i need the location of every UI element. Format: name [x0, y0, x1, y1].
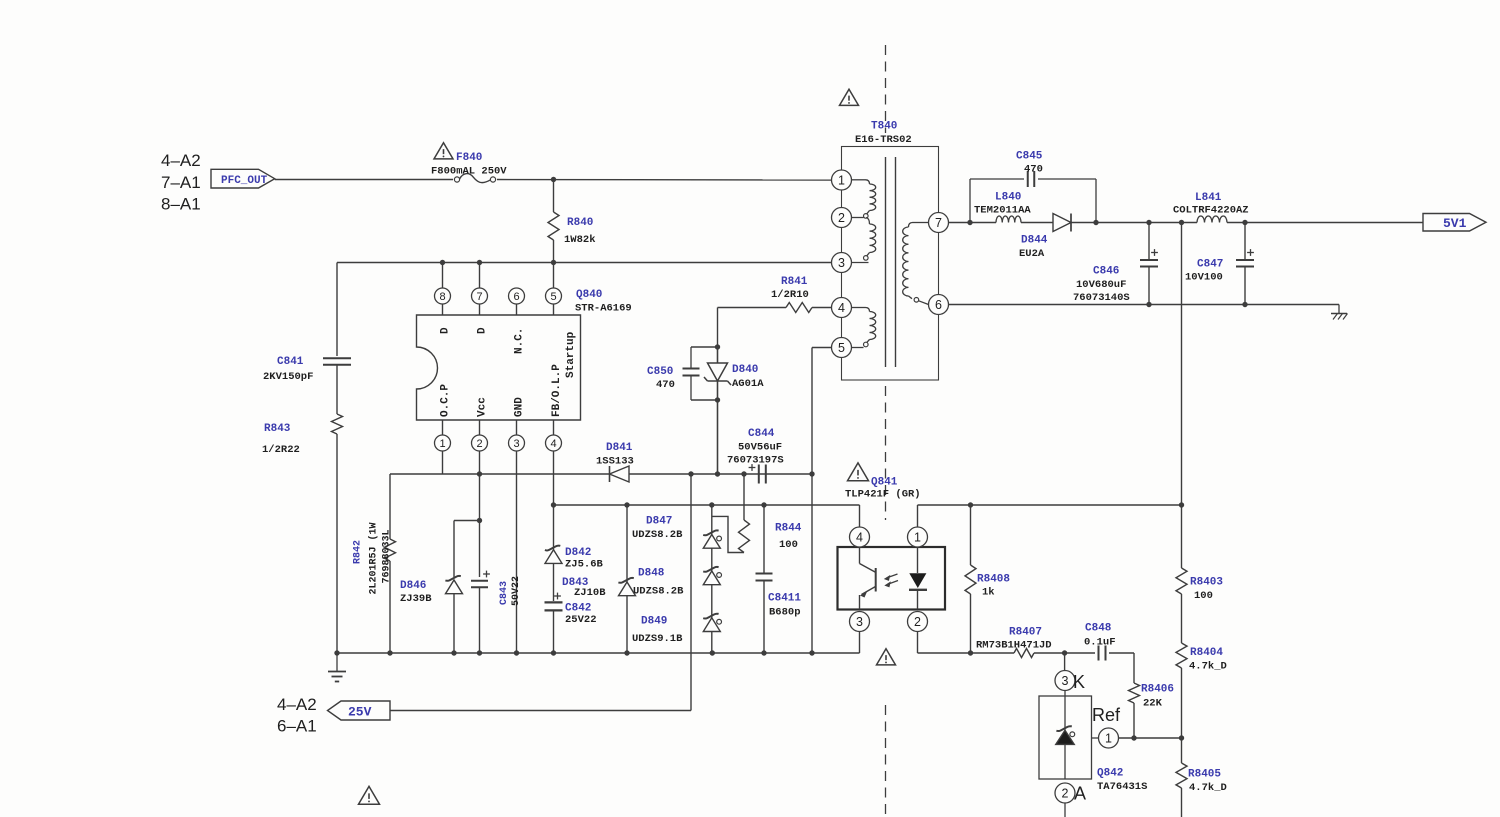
- diode D849 zener UDZS9.1B: [703, 585, 721, 653]
- wire primary ground bus: [337, 652, 860, 654]
- junction fuse line / R840: [551, 177, 556, 182]
- label R842: [353, 540, 364, 564]
- wire FB bus secondary: [918, 504, 1182, 506]
- diode D841 1SS133: [610, 466, 630, 482]
- label L840: [995, 192, 1021, 204]
- pin 1 Ref of Q842: [1092, 705, 1122, 748]
- diode D840 AG01A (zener): [704, 347, 731, 474]
- label C850 value 470: [656, 379, 675, 391]
- svg-text:FB/O.L.P: FB/O.L.P: [551, 364, 563, 417]
- label L841: [1195, 192, 1222, 204]
- label C843 value 50V22 (rotated): [511, 576, 522, 606]
- resistor R8404 4.7k_D: [1176, 643, 1187, 738]
- svg-text:UDZS8.2B: UDZS8.2B: [632, 529, 683, 541]
- label Q840 pin8 D: [440, 327, 452, 334]
- wire R841 to transformer pin4: [812, 307, 832, 309]
- transistor Q842 TA76431S body: [1039, 691, 1092, 780]
- svg-text:4.7k_D: 4.7k_D: [1189, 782, 1227, 794]
- label Q842 part TA76431S: [1097, 781, 1147, 793]
- pin 3 of T840: [832, 253, 852, 273]
- wire C850 bracket bottom: [691, 399, 718, 401]
- label D848: [638, 568, 665, 580]
- resistor R844 100: [712, 474, 750, 553]
- svg-text:TEM2011AA: TEM2011AA: [974, 205, 1031, 217]
- junction FB/D843: [624, 502, 629, 507]
- diode D848 zener UDZS8.2B: [703, 548, 721, 585]
- pin 2 of Q840: [472, 420, 488, 474]
- svg-text:5: 5: [838, 341, 845, 355]
- svg-text:4–A2: 4–A2: [277, 695, 317, 714]
- label D844: [1021, 235, 1048, 247]
- svg-text:100: 100: [1194, 590, 1213, 602]
- svg-text:C850: C850: [647, 366, 673, 378]
- label R840: [567, 217, 593, 229]
- warning triangle bottom left: [359, 786, 380, 804]
- pin 4 of Q841: [850, 505, 870, 547]
- wire opto pin2 line: [918, 652, 1015, 654]
- svg-text:UDZS8.2B: UDZS8.2B: [633, 586, 684, 598]
- label T840 part E16-TRS02: [855, 134, 912, 146]
- label D849 value UDZS9.1B: [632, 633, 683, 645]
- wire D846 top: [454, 521, 480, 578]
- pin 8 of Q840: [435, 288, 451, 315]
- svg-text:PFC_OUT: PFC_OUT: [221, 175, 268, 187]
- label D841: [606, 442, 633, 454]
- svg-text:25V: 25V: [348, 705, 372, 720]
- label D847: [646, 516, 672, 528]
- label R8408 value 1k: [982, 587, 995, 599]
- LED of Q841: [909, 547, 927, 610]
- transistor Q841 phototransistor: [860, 547, 876, 610]
- svg-text:R844: R844: [775, 523, 802, 535]
- junction FB/C8411: [761, 502, 766, 507]
- label R841: [781, 276, 808, 288]
- pin 2 of T840: [832, 208, 852, 228]
- resistor R842: [385, 539, 396, 653]
- pin 1 of Q840: [435, 420, 451, 474]
- junction D840 top: [715, 344, 720, 349]
- label C848: [1085, 623, 1112, 635]
- winding T840 secondary 7-6: [903, 223, 929, 305]
- label D847 value UDZS8.2B: [632, 529, 683, 541]
- label D848 value UDZS8.2B: [633, 586, 684, 598]
- label F840: [456, 152, 482, 164]
- label R8404 value 4.7k_D: [1189, 661, 1227, 673]
- label R843 value 1/2R22: [262, 444, 300, 456]
- label Q840 pin6 N.C.: [514, 328, 526, 354]
- label L840 value TEM2011AA: [974, 205, 1031, 217]
- capacitor C846 10V680uF: [1140, 223, 1158, 305]
- svg-text:D846: D846: [400, 580, 426, 592]
- svg-text:4.7k_D: 4.7k_D: [1189, 661, 1227, 673]
- resistor R8405 4.7k_D: [1176, 738, 1187, 817]
- label R8404: [1190, 647, 1223, 659]
- wire T840 pin7 to L840: [949, 222, 997, 224]
- junction D846/Vcc pin2 line: [477, 518, 482, 523]
- label Q841 part TLP421F (GR): [845, 489, 921, 501]
- capacitor C843: [471, 571, 490, 588]
- resistor R8408 1k: [965, 505, 976, 653]
- label Q840 pin5 Startup: [565, 331, 577, 378]
- label C841: [277, 356, 304, 368]
- junction pin5 riser / ground bus: [809, 650, 814, 655]
- svg-text:10V100: 10V100: [1185, 272, 1223, 284]
- svg-text:COLTRF4220AZ: COLTRF4220AZ: [1173, 205, 1249, 217]
- svg-text:3: 3: [856, 615, 863, 629]
- svg-text:6: 6: [513, 291, 519, 303]
- light arrows of Q841: [884, 574, 898, 587]
- svg-text:D840: D840: [732, 364, 758, 376]
- svg-text:L840: L840: [995, 192, 1021, 204]
- label C843 (rotated): [499, 581, 510, 605]
- svg-text:100: 100: [779, 539, 798, 551]
- junction FB/zener chain: [709, 502, 714, 507]
- optocoupler Q841 TLP421F body: [838, 547, 946, 610]
- svg-text:Q842: Q842: [1097, 768, 1123, 780]
- svg-text:R8406: R8406: [1141, 684, 1174, 696]
- diode D844 EU2A: [1053, 214, 1096, 232]
- wire R841 riser: [718, 308, 787, 475]
- svg-text:7–A1: 7–A1: [161, 173, 201, 192]
- label R8403: [1190, 577, 1223, 589]
- svg-text:ZJ10B: ZJ10B: [574, 587, 606, 599]
- resistor R8403 100: [1176, 505, 1187, 643]
- svg-text:4: 4: [550, 438, 556, 450]
- label Q840 pin2 Vcc: [477, 397, 489, 417]
- wire 25V riser: [390, 474, 691, 711]
- svg-text:Ref: Ref: [1092, 705, 1121, 725]
- wire to C848: [1065, 652, 1095, 654]
- resistor R8406 22K: [1129, 653, 1140, 738]
- resistor R840: [548, 180, 559, 263]
- label Q840 pin4 FB/O.L.P: [551, 364, 563, 417]
- svg-text:470: 470: [1024, 164, 1043, 176]
- svg-text:2: 2: [1062, 787, 1069, 801]
- label R8406: [1141, 684, 1174, 696]
- junction gnd/pin3: [514, 650, 519, 655]
- pin 4 of T840: [832, 298, 852, 318]
- node 7-A1 input label: [161, 173, 201, 192]
- label D840: [732, 364, 758, 376]
- pin 5 of Q840: [546, 288, 562, 315]
- junction gnd/D843: [624, 650, 629, 655]
- pin 6 of Q840: [509, 288, 525, 315]
- label R842 value 2L201R5J (1W): [368, 522, 380, 594]
- label Q840 part STR-A6169: [575, 303, 632, 315]
- label R8407 value RM73B1H471JD: [976, 640, 1052, 652]
- junction ref line / R8405: [1179, 735, 1184, 740]
- label D843 value ZJ10B: [574, 587, 606, 599]
- svg-text:AG01A: AG01A: [732, 378, 764, 390]
- winding T840 primary 2-3: [852, 218, 876, 263]
- svg-text:1: 1: [1105, 732, 1112, 746]
- capacitor C845 bracket: [970, 171, 1096, 223]
- transformer core: [886, 157, 896, 367]
- wire drain line: [337, 262, 832, 264]
- svg-text:1SS133: 1SS133: [596, 456, 634, 468]
- pin 3 of Q841: [850, 612, 870, 654]
- label C846 value 76073140S: [1073, 292, 1130, 304]
- wire T840 pin5 to riser: [812, 348, 832, 475]
- wire Vcc line: [390, 473, 812, 475]
- svg-text:7: 7: [935, 216, 942, 230]
- winding T840 primary 1-2: [852, 180, 876, 218]
- node 4-A2 input label: [161, 151, 201, 170]
- svg-text:C847: C847: [1197, 259, 1223, 271]
- junction gnd/C841 R843: [334, 650, 339, 655]
- svg-text:22K: 22K: [1143, 698, 1163, 710]
- capacitor C841: [323, 358, 351, 365]
- wire FB bus primary: [554, 504, 860, 506]
- svg-text:R8405: R8405: [1188, 769, 1221, 781]
- label R844: [775, 523, 802, 535]
- svg-text:50V56uF: 50V56uF: [738, 442, 782, 454]
- junction FB/pin4: [551, 502, 556, 507]
- junction C846 top: [1146, 220, 1151, 225]
- label C8411 value B680p: [769, 607, 801, 619]
- label C842: [565, 603, 591, 615]
- svg-text:3: 3: [838, 256, 845, 270]
- diode D846 (zener ZJ39B): [445, 576, 462, 653]
- warning triangle top: [840, 89, 859, 105]
- svg-text:F840: F840: [456, 152, 482, 164]
- svg-text:C845: C845: [1016, 151, 1043, 163]
- svg-text:ZJ5.6B: ZJ5.6B: [565, 559, 604, 571]
- label R840 value 1W82k: [564, 234, 596, 246]
- wire PFC_OUT to fuse F840: [275, 179, 453, 181]
- svg-text:1: 1: [914, 531, 921, 545]
- svg-text:5V1: 5V1: [1443, 216, 1467, 231]
- net 5V1 output arrow: [1423, 214, 1486, 232]
- label D842: [565, 547, 591, 559]
- svg-text:TA76431S: TA76431S: [1097, 781, 1147, 793]
- junction drain/pin7: [477, 260, 482, 265]
- svg-text:C8411: C8411: [768, 593, 801, 605]
- resistor R843: [332, 414, 343, 434]
- label C846 value 10V680uF: [1076, 279, 1126, 291]
- svg-text:6: 6: [935, 298, 942, 312]
- capacitor C848 0.1uF: [1099, 646, 1135, 661]
- label R8403 value 100: [1194, 590, 1213, 602]
- label D843: [562, 577, 589, 589]
- wire pin8 riser: [442, 263, 444, 289]
- inductor L840 TEM2011AA: [996, 216, 1053, 223]
- diode D842 zener ZJ5.6B: [545, 505, 562, 563]
- wire pin7 riser: [479, 263, 481, 289]
- junction R8406 bottom / ref line: [1131, 735, 1136, 740]
- junction Vcc/25V riser: [688, 471, 693, 476]
- inductor L841 COLTRF4220AZ: [1197, 216, 1227, 223]
- label L841 value COLTRF4220AZ: [1173, 205, 1249, 217]
- wire ref line: [1119, 737, 1182, 739]
- svg-text:C842: C842: [565, 603, 591, 615]
- svg-text:4–A2: 4–A2: [161, 151, 201, 170]
- wire pin2 to C843: [479, 474, 481, 577]
- svg-text:5: 5: [550, 291, 556, 303]
- wire C843 to ground bus: [479, 588, 481, 654]
- svg-text:Vcc: Vcc: [477, 397, 489, 417]
- junction C845 right: [1093, 220, 1098, 225]
- label D846: [400, 580, 426, 592]
- svg-text:Q840: Q840: [576, 289, 602, 301]
- diode D847 zener UDZS8.2B: [703, 505, 721, 548]
- IC Q840 STR-A6169 body: [417, 315, 581, 420]
- svg-text:4: 4: [856, 531, 863, 545]
- svg-text:ZJ39B: ZJ39B: [400, 593, 432, 605]
- svg-text:Q841: Q841: [871, 477, 898, 489]
- svg-text:D841: D841: [606, 442, 633, 454]
- label C844 value 50V56uF: [738, 442, 782, 454]
- resistor R8407 RM73B1H471JD: [1014, 649, 1065, 658]
- svg-text:UDZS9.1B: UDZS9.1B: [632, 633, 683, 645]
- pin 7 of T840: [929, 213, 949, 233]
- svg-text:2KV150pF: 2KV150pF: [263, 371, 313, 383]
- warning triangle at F840: [434, 143, 453, 159]
- label C847: [1197, 259, 1223, 271]
- wire C850 bracket top: [691, 346, 718, 348]
- label D849: [641, 616, 667, 628]
- pin 1 of Q841: [908, 505, 928, 547]
- capacitor C847 10V100: [1236, 223, 1254, 305]
- label R844 value 100: [779, 539, 798, 551]
- label C845: [1016, 151, 1043, 163]
- svg-text:R8403: R8403: [1190, 577, 1223, 589]
- svg-text:F800mAL 250V: F800mAL 250V: [431, 166, 507, 178]
- wire secondary ground: [949, 304, 1340, 306]
- ground secondary (chassis): [1331, 305, 1348, 320]
- junction gnd/D846: [451, 650, 456, 655]
- label R8405 value 4.7k_D: [1189, 782, 1227, 794]
- label C847 value 10V100: [1185, 272, 1223, 284]
- svg-text:STR-A6169: STR-A6169: [575, 303, 632, 315]
- label Q841: [871, 477, 898, 489]
- svg-text:76073197S: 76073197S: [727, 455, 784, 467]
- label C8411: [768, 593, 801, 605]
- svg-text:GND: GND: [514, 397, 526, 417]
- junction FB bus / 5V riser: [1179, 502, 1184, 507]
- node 8-A1 input label: [161, 195, 201, 214]
- junction Vcc/pin2: [477, 471, 482, 476]
- svg-text:6–A1: 6–A1: [277, 717, 317, 736]
- junction C845 left: [967, 220, 972, 225]
- svg-text:D844: D844: [1021, 235, 1048, 247]
- junction gnd/R842: [387, 650, 392, 655]
- wire 5V riser to FB bus: [1181, 223, 1183, 506]
- junction D840 bottom: [715, 397, 720, 402]
- label R843: [264, 423, 291, 435]
- junction gnd/C842: [551, 650, 556, 655]
- svg-text:1W82k: 1W82k: [564, 234, 596, 246]
- wire pin5 riser to ground bus: [811, 474, 813, 653]
- svg-text:1: 1: [838, 174, 845, 188]
- svg-text:K: K: [1073, 672, 1085, 692]
- junction 5V riser: [1179, 220, 1184, 225]
- wire L841 to 5V1 arrow: [1227, 222, 1423, 224]
- svg-text:B680p: B680p: [769, 607, 801, 619]
- label C841 value 2KV150pF: [263, 371, 313, 383]
- pin 2 A of Q842: [1055, 783, 1086, 817]
- svg-text:R8404: R8404: [1190, 647, 1223, 659]
- pin 6 of T840: [929, 295, 949, 315]
- pin 4 of Q840: [546, 420, 562, 505]
- svg-text:R841: R841: [781, 276, 808, 288]
- label C844: [748, 428, 775, 440]
- svg-text:C841: C841: [277, 356, 304, 368]
- wire K drop to pin3: [1064, 653, 1066, 671]
- svg-text:25V22: 25V22: [565, 614, 597, 626]
- zener of Q842: [1056, 696, 1075, 779]
- junction Vcc line end / pin5 riser: [809, 471, 814, 476]
- svg-text:E16-TRS02: E16-TRS02: [855, 134, 912, 146]
- node 6-A1 bottom label: [277, 717, 317, 736]
- label R8405: [1188, 769, 1221, 781]
- svg-text:D848: D848: [638, 568, 665, 580]
- junction drain/pin8: [440, 260, 445, 265]
- junction gnd/D849: [710, 650, 715, 655]
- wire R842 jog: [389, 474, 391, 539]
- label R8406 value 22K: [1143, 698, 1163, 710]
- capacitor C8411 B680p: [756, 505, 773, 653]
- svg-text:470: 470: [656, 379, 675, 391]
- label C844 value 76073197S: [727, 455, 784, 467]
- junction C846 bottom: [1146, 302, 1151, 307]
- warning triangle at Q841: [848, 463, 869, 481]
- svg-text:A: A: [1074, 784, 1086, 804]
- svg-text:76988033L: 76988033L: [382, 529, 393, 583]
- wire pin5 riser: [553, 263, 555, 289]
- label Q840 pin1 O.C.P: [440, 384, 452, 417]
- svg-text:10V680uF: 10V680uF: [1076, 279, 1126, 291]
- pin 5 of T840: [832, 338, 852, 358]
- label C850: [647, 366, 673, 378]
- pin 3 of Q840: [509, 420, 525, 653]
- wire R843 to ground bus: [336, 434, 338, 653]
- label D842 value ZJ5.6B: [565, 559, 604, 571]
- capacitor C842 25V22: [545, 563, 563, 653]
- pin 7 of Q840: [472, 288, 488, 315]
- svg-text:3: 3: [513, 438, 519, 450]
- label D846 value ZJ39B: [400, 593, 432, 605]
- warning triangle below Q841: [877, 649, 896, 665]
- svg-text:4: 4: [838, 301, 845, 315]
- diode D843 zener ZJ10B: [618, 505, 635, 653]
- svg-text:D: D: [440, 327, 452, 334]
- label D841 value 1SS133: [596, 456, 634, 468]
- svg-text:D847: D847: [646, 516, 672, 528]
- svg-text:C846: C846: [1093, 266, 1119, 278]
- winding T840 aux 4-5: [852, 308, 876, 348]
- label D840 value AG01A: [732, 378, 764, 390]
- svg-text:R840: R840: [567, 217, 593, 229]
- junction C847 bottom: [1242, 302, 1247, 307]
- label C842 value 25V22: [565, 614, 597, 626]
- svg-text:2: 2: [838, 211, 845, 225]
- svg-text:L841: L841: [1195, 192, 1222, 204]
- label F840 value: [431, 166, 507, 178]
- wire fuse to transformer pin1: [497, 179, 832, 182]
- resistor R841 1/2R10: [786, 303, 812, 313]
- svg-text:3: 3: [1062, 674, 1069, 688]
- wire C841 to R843: [336, 365, 338, 414]
- svg-text:D: D: [477, 327, 489, 334]
- junction K drop: [1062, 650, 1067, 655]
- wire C841 top: [336, 263, 338, 357]
- svg-text:RM73B1H471JD: RM73B1H471JD: [976, 640, 1052, 652]
- svg-text:EU2A: EU2A: [1019, 248, 1045, 260]
- svg-text:8–A1: 8–A1: [161, 195, 201, 214]
- label C846: [1093, 266, 1119, 278]
- svg-text:1: 1: [439, 438, 445, 450]
